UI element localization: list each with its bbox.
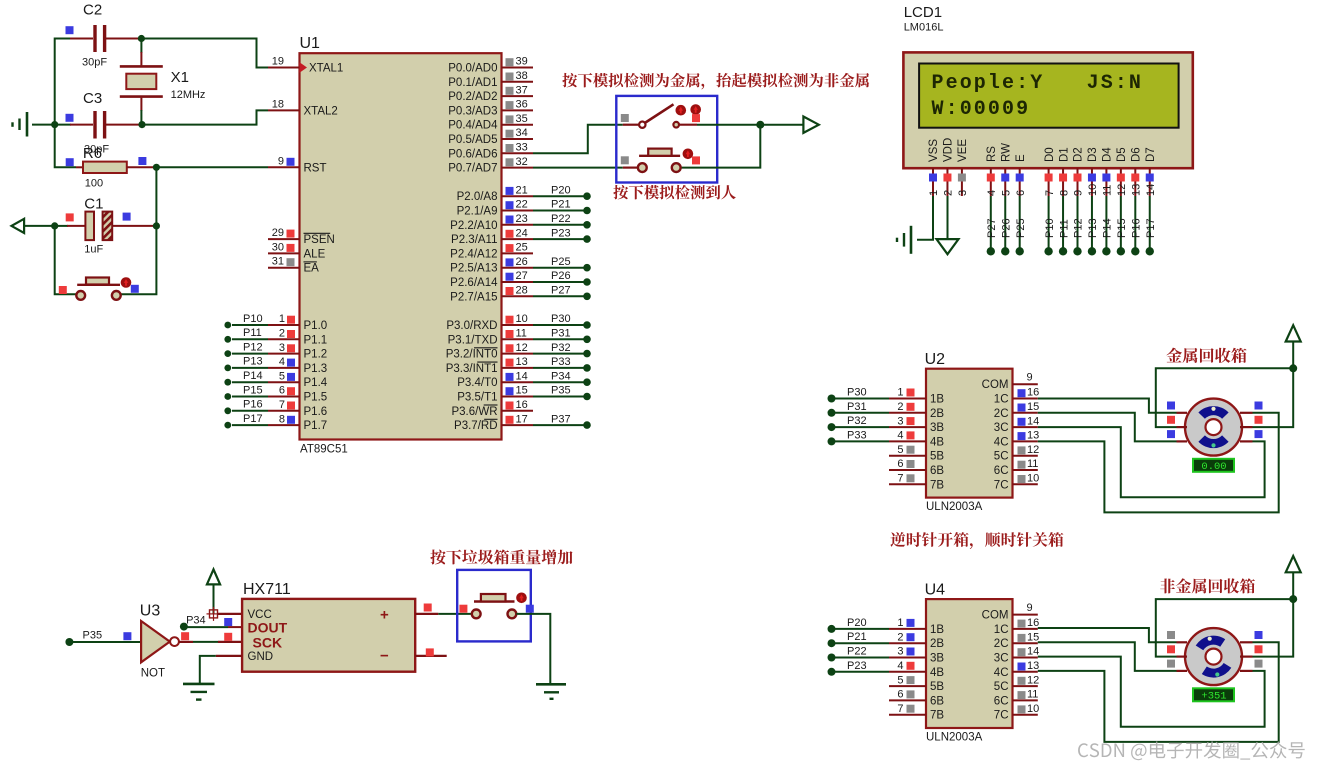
pin 38 P0.1/AD1 bbox=[448, 70, 533, 89]
motor terminal bbox=[1240, 440, 1253, 442]
state square bbox=[621, 156, 629, 164]
motor terminal bbox=[1240, 426, 1253, 428]
pin 30 ALE bbox=[268, 241, 326, 260]
svg-text:4: 4 bbox=[986, 190, 998, 196]
state square bbox=[138, 157, 146, 165]
LCD net P14 bbox=[1102, 196, 1114, 256]
origin marker bbox=[207, 607, 221, 621]
pin 9 COM bbox=[982, 372, 1038, 392]
svg-text:37: 37 bbox=[516, 84, 528, 96]
state square bbox=[66, 114, 74, 122]
svg-text:P0.5/AD5: P0.5/AD5 bbox=[448, 134, 497, 146]
LCD net P26 bbox=[1000, 196, 1012, 256]
svg-text:6: 6 bbox=[279, 385, 285, 397]
svg-text:12MHz: 12MHz bbox=[171, 89, 206, 101]
svg-text:10: 10 bbox=[1027, 473, 1039, 485]
svg-text:32: 32 bbox=[516, 156, 528, 168]
LCD pin 1 VSS bbox=[928, 139, 940, 196]
wire bbox=[121, 226, 157, 294]
svg-text:D7: D7 bbox=[1145, 147, 1157, 162]
state square bbox=[1255, 416, 1263, 424]
svg-text:P14: P14 bbox=[243, 370, 263, 382]
svg-text:1C: 1C bbox=[994, 394, 1009, 406]
svg-text:2B: 2B bbox=[930, 408, 944, 420]
pin 10 7C bbox=[994, 703, 1039, 722]
svg-text:P20: P20 bbox=[551, 184, 571, 196]
svg-text:30pF: 30pF bbox=[82, 57, 107, 69]
ground bbox=[13, 112, 55, 137]
wire VSS to ground bbox=[917, 196, 933, 240]
pin 5 5B bbox=[889, 444, 944, 463]
state square bbox=[621, 114, 629, 122]
svg-text:P21: P21 bbox=[551, 199, 571, 211]
power terminal bbox=[1286, 325, 1301, 341]
svg-text:1B: 1B bbox=[930, 394, 944, 406]
wire bbox=[55, 39, 76, 168]
pin 14 3C bbox=[994, 415, 1039, 434]
state square bbox=[123, 213, 131, 221]
LCD net P16 bbox=[1131, 196, 1143, 256]
svg-text:People:Y JS:N: People:Y JS:N bbox=[932, 72, 1144, 95]
pin 13 4C bbox=[994, 430, 1039, 449]
pin 2 2B / net P21 bbox=[828, 631, 945, 650]
svg-text:3: 3 bbox=[279, 342, 285, 354]
ground bbox=[536, 684, 566, 699]
button person bbox=[623, 149, 681, 172]
svg-text:P13: P13 bbox=[243, 356, 263, 368]
svg-text:11: 11 bbox=[516, 328, 527, 340]
svg-text:5C: 5C bbox=[994, 681, 1009, 693]
svg-text:P11: P11 bbox=[243, 327, 262, 339]
svg-text:P20: P20 bbox=[847, 617, 867, 629]
state square bbox=[123, 632, 131, 640]
LCD pin 9 D2 bbox=[1073, 147, 1085, 196]
NOT gate U3 bbox=[141, 621, 179, 662]
svg-text:27: 27 bbox=[516, 270, 528, 282]
pin 4 4B / net P23 bbox=[828, 660, 945, 679]
watermark bbox=[1078, 741, 1305, 760]
svg-text:5: 5 bbox=[897, 444, 903, 456]
motor terminal bbox=[1240, 655, 1253, 657]
svg-text:3: 3 bbox=[957, 190, 969, 196]
svg-text:17: 17 bbox=[516, 413, 528, 425]
wire bbox=[142, 110, 268, 124]
pin 32 P0.7/AD7 bbox=[448, 156, 533, 175]
svg-text:4: 4 bbox=[897, 660, 903, 672]
svg-text:COM: COM bbox=[982, 610, 1009, 622]
svg-text:7B: 7B bbox=[930, 710, 944, 722]
svg-text:3: 3 bbox=[897, 646, 903, 658]
svg-text:5B: 5B bbox=[930, 681, 944, 693]
svg-text:5C: 5C bbox=[994, 451, 1009, 463]
pin 9 COM bbox=[982, 602, 1038, 622]
svg-text:13: 13 bbox=[516, 356, 528, 368]
svg-text:1C: 1C bbox=[994, 624, 1009, 636]
svg-text:DOUT: DOUT bbox=[248, 620, 288, 636]
svg-text:P17: P17 bbox=[243, 413, 263, 425]
svg-text:6C: 6C bbox=[994, 465, 1009, 477]
annotation text bbox=[562, 73, 869, 90]
svg-text:P1.1: P1.1 bbox=[304, 334, 328, 346]
wire VCC bbox=[217, 613, 242, 615]
svg-text:31: 31 bbox=[272, 256, 284, 268]
svg-text:LCD1: LCD1 bbox=[904, 4, 942, 21]
state square bbox=[1255, 402, 1263, 410]
svg-text:P2.6/A14: P2.6/A14 bbox=[450, 277, 498, 289]
power VDD down bbox=[937, 196, 959, 254]
wire 3C bbox=[1038, 657, 1265, 727]
svg-text:VDD: VDD bbox=[943, 138, 955, 162]
svg-text:P17: P17 bbox=[1145, 218, 1157, 238]
svg-text:P34: P34 bbox=[551, 370, 571, 382]
svg-text:P25: P25 bbox=[1015, 218, 1027, 238]
state square bbox=[692, 114, 700, 122]
junction bbox=[756, 121, 764, 129]
svg-text:9: 9 bbox=[1027, 372, 1033, 384]
svg-text:4: 4 bbox=[279, 356, 285, 368]
svg-text:P0.6/AD6: P0.6/AD6 bbox=[448, 148, 497, 160]
pin 10 7C bbox=[994, 473, 1039, 492]
svg-text:U3: U3 bbox=[140, 603, 161, 620]
svg-text:P0.7/AD7: P0.7/AD7 bbox=[448, 163, 497, 175]
pin 6 6B bbox=[889, 689, 944, 708]
LCD pin 14 D7 bbox=[1145, 147, 1157, 196]
pin 19 XTAL1 bbox=[268, 56, 343, 75]
pin 23 P2.2/A10 bbox=[450, 213, 591, 232]
pin 25 P2.4/A12 bbox=[450, 242, 533, 261]
svg-text:P1.2: P1.2 bbox=[304, 349, 328, 361]
svg-text:11: 11 bbox=[1027, 689, 1038, 701]
svg-text:R6: R6 bbox=[83, 145, 102, 162]
wire bbox=[155, 167, 157, 226]
pin 16 P3.6/WR bbox=[451, 399, 533, 418]
svg-text:P34: P34 bbox=[186, 615, 206, 627]
svg-text:C2: C2 bbox=[83, 2, 102, 19]
capacitor C1 bbox=[55, 212, 157, 241]
svg-text:P3.1/TXD: P3.1/TXD bbox=[448, 334, 498, 346]
svg-text:2C: 2C bbox=[994, 638, 1009, 650]
svg-text:P0.1/AD1: P0.1/AD1 bbox=[448, 77, 497, 89]
svg-text:13: 13 bbox=[1131, 184, 1143, 196]
svg-text:P30: P30 bbox=[847, 387, 867, 399]
svg-text:P10: P10 bbox=[243, 313, 263, 325]
svg-text:2: 2 bbox=[279, 328, 285, 340]
LCD net P11 bbox=[1058, 196, 1070, 256]
state square bbox=[1167, 631, 1175, 639]
chip U1 AT89C51 bbox=[300, 53, 502, 439]
svg-text:P35: P35 bbox=[83, 630, 103, 642]
svg-text:1: 1 bbox=[279, 313, 285, 325]
LCD net P10 bbox=[1044, 196, 1056, 256]
motor terminal bbox=[1177, 412, 1188, 414]
svg-text:ALE: ALE bbox=[304, 248, 326, 260]
pin 12 5C bbox=[994, 674, 1039, 693]
wire common loop bbox=[1156, 342, 1293, 428]
svg-text:1: 1 bbox=[928, 190, 940, 196]
svg-text:EA: EA bbox=[304, 263, 320, 275]
state square bbox=[1167, 430, 1175, 438]
button weight bbox=[472, 594, 516, 618]
svg-text:14: 14 bbox=[516, 370, 528, 382]
svg-text:7C: 7C bbox=[994, 479, 1009, 491]
LCD net P12 bbox=[1073, 196, 1085, 256]
svg-text:P1.3: P1.3 bbox=[304, 363, 328, 375]
svg-text:15: 15 bbox=[1027, 401, 1039, 413]
svg-text:SCK: SCK bbox=[253, 635, 283, 651]
actuator icon bbox=[676, 105, 687, 116]
pin 7 7B bbox=[889, 473, 944, 492]
svg-text:C3: C3 bbox=[83, 90, 102, 107]
LCD pin 3 VEE bbox=[957, 139, 969, 196]
wire bbox=[697, 124, 803, 126]
rotor mark bbox=[1215, 672, 1219, 676]
svg-text:P0.0/AD0: P0.0/AD0 bbox=[448, 63, 497, 75]
svg-text:38: 38 bbox=[516, 70, 528, 82]
motor terminal bbox=[1240, 670, 1253, 672]
svg-text:P26: P26 bbox=[1000, 218, 1012, 238]
LCD pin 13 D6 bbox=[1131, 147, 1143, 196]
svg-text:NOT: NOT bbox=[141, 668, 165, 680]
rotor mark bbox=[1211, 407, 1215, 411]
pin 35 P0.4/AD4 bbox=[448, 113, 533, 132]
svg-text:P0.2/AD2: P0.2/AD2 bbox=[448, 91, 497, 103]
motor terminal bbox=[1177, 655, 1188, 657]
svg-text:P10: P10 bbox=[1044, 218, 1056, 238]
power terminal bbox=[1286, 556, 1301, 572]
power terminal bbox=[207, 569, 220, 614]
pin 17 P3.7/RD bbox=[454, 413, 591, 432]
LCD LM016L body bbox=[903, 52, 1192, 168]
state square bbox=[526, 605, 534, 613]
svg-text:7: 7 bbox=[897, 473, 903, 485]
wire 4C bbox=[1038, 642, 1279, 742]
wire plus out bbox=[415, 613, 472, 615]
svg-text:P23: P23 bbox=[551, 227, 571, 239]
svg-text:36: 36 bbox=[516, 99, 528, 111]
svg-text:P27: P27 bbox=[986, 218, 998, 238]
pin 39 P0.0/AD0 bbox=[448, 56, 533, 75]
pin 26 P2.5/A13 bbox=[450, 256, 591, 275]
wire common right bbox=[1253, 368, 1294, 427]
LCD net P27 bbox=[986, 196, 998, 256]
stepper motor body bbox=[1185, 628, 1242, 685]
annotation text bbox=[613, 185, 735, 200]
capacitor C3 bbox=[55, 111, 142, 139]
svg-text:ULN2003A: ULN2003A bbox=[926, 501, 983, 513]
capacitor C2 bbox=[70, 25, 141, 52]
svg-text:6B: 6B bbox=[930, 695, 944, 707]
svg-text:+351: +351 bbox=[1201, 691, 1226, 703]
svg-text:D6: D6 bbox=[1131, 147, 1143, 162]
svg-text:P37: P37 bbox=[551, 413, 571, 425]
svg-text:25: 25 bbox=[516, 242, 528, 254]
net P34 bbox=[180, 615, 242, 631]
motor terminal bbox=[1177, 670, 1188, 672]
LCD net P15 bbox=[1116, 196, 1128, 256]
LCD net P13 bbox=[1087, 196, 1099, 256]
state square bbox=[131, 285, 139, 293]
svg-text:1uF: 1uF bbox=[84, 244, 103, 256]
state square bbox=[224, 633, 232, 641]
annotation text bbox=[890, 532, 1063, 549]
svg-text:P1.0: P1.0 bbox=[304, 320, 328, 332]
svg-text:9: 9 bbox=[278, 155, 284, 167]
junction bbox=[153, 164, 160, 171]
svg-text:PSEN: PSEN bbox=[304, 234, 335, 246]
svg-text:P3.7/RD: P3.7/RD bbox=[454, 420, 497, 432]
pin 4 4B / net P33 bbox=[828, 429, 945, 448]
svg-text:RST: RST bbox=[304, 162, 327, 174]
svg-text:P1.5: P1.5 bbox=[304, 392, 328, 404]
junction bbox=[153, 222, 160, 229]
svg-text:4: 4 bbox=[897, 430, 903, 442]
terminal arrow bbox=[12, 219, 55, 233]
svg-text:18: 18 bbox=[272, 98, 284, 110]
actuator icon bbox=[121, 277, 132, 288]
state square bbox=[424, 604, 432, 612]
actuator icon bbox=[683, 149, 694, 160]
svg-text:5: 5 bbox=[1000, 190, 1012, 196]
svg-text:14: 14 bbox=[1145, 184, 1157, 196]
svg-text:P3.6/WR: P3.6/WR bbox=[451, 406, 497, 418]
svg-text:16: 16 bbox=[516, 399, 528, 411]
stepper motor body bbox=[1185, 399, 1242, 456]
pin 31 EA bbox=[268, 256, 319, 275]
wire 1C bbox=[1038, 399, 1177, 413]
state square bbox=[59, 286, 67, 294]
svg-text:P16: P16 bbox=[1131, 218, 1143, 238]
state square bbox=[1255, 660, 1263, 668]
svg-text:U4: U4 bbox=[925, 581, 946, 598]
junction bbox=[51, 121, 58, 128]
state square bbox=[66, 26, 74, 34]
svg-text:3B: 3B bbox=[930, 422, 944, 434]
svg-text:+: + bbox=[380, 607, 389, 624]
svg-text:P22: P22 bbox=[551, 213, 571, 225]
pin 37 P0.2/AD2 bbox=[448, 84, 533, 103]
pin 3 3B / net P22 bbox=[828, 646, 945, 665]
svg-text:P12: P12 bbox=[243, 341, 263, 353]
LCD pin 7 D0 bbox=[1044, 147, 1056, 196]
pin 13 P3.3/INT1 bbox=[446, 356, 591, 375]
resistor R6 bbox=[76, 162, 156, 173]
state square bbox=[1255, 430, 1263, 438]
wire common loop bbox=[1156, 572, 1293, 656]
svg-text:7C: 7C bbox=[994, 710, 1009, 722]
svg-text:P26: P26 bbox=[551, 270, 571, 282]
pin 2 2B / net P31 bbox=[828, 401, 945, 420]
state square bbox=[1167, 660, 1175, 668]
LCD net P25 bbox=[1015, 196, 1027, 256]
svg-text:P2.0/A8: P2.0/A8 bbox=[457, 191, 498, 203]
state square bbox=[692, 156, 700, 164]
svg-text:P3.2/INT0: P3.2/INT0 bbox=[446, 349, 498, 361]
svg-text:D1: D1 bbox=[1058, 147, 1070, 162]
svg-text:XTAL2: XTAL2 bbox=[304, 105, 338, 117]
pin 18 XTAL2 bbox=[268, 98, 338, 117]
pin 7 P1.6 / net P16 bbox=[224, 399, 327, 418]
pin 5 5B bbox=[889, 674, 944, 693]
svg-text:6: 6 bbox=[897, 689, 903, 701]
wire 1C bbox=[1038, 628, 1177, 642]
svg-text:P27: P27 bbox=[551, 285, 571, 297]
pin 27 P2.6/A14 bbox=[450, 270, 591, 289]
rotor mark bbox=[1208, 637, 1212, 641]
pin 22 P2.1/A9 bbox=[457, 199, 591, 218]
chip HX711 bbox=[242, 599, 415, 672]
motor terminal bbox=[1240, 412, 1253, 414]
svg-text:8: 8 bbox=[279, 413, 285, 425]
svg-text:P14: P14 bbox=[1102, 218, 1114, 238]
svg-text:P0.3/AD3: P0.3/AD3 bbox=[448, 105, 497, 117]
svg-text:P13: P13 bbox=[1087, 218, 1099, 238]
pin 8 P1.7 / net P17 bbox=[224, 413, 327, 432]
svg-text:3: 3 bbox=[897, 415, 903, 427]
rotor shaft bbox=[1206, 419, 1222, 435]
svg-text:22: 22 bbox=[516, 199, 528, 211]
svg-text:7: 7 bbox=[279, 399, 285, 411]
rotor pole bbox=[1196, 636, 1226, 651]
svg-text:P31: P31 bbox=[847, 401, 867, 413]
display bbox=[1193, 688, 1234, 702]
button RST bbox=[76, 278, 120, 300]
svg-text:13: 13 bbox=[1027, 660, 1039, 672]
svg-text:P1.4: P1.4 bbox=[304, 377, 328, 389]
svg-text:P2.2/A10: P2.2/A10 bbox=[450, 220, 497, 232]
svg-text:10: 10 bbox=[516, 313, 528, 325]
pin 3 3B / net P32 bbox=[828, 415, 945, 434]
junction bbox=[138, 121, 145, 128]
svg-text:P1.7: P1.7 bbox=[304, 420, 328, 432]
switch SW-SPST bbox=[623, 104, 697, 128]
pin 10 P3.0/RXD bbox=[446, 313, 590, 332]
pin 21 P2.0/A8 bbox=[457, 184, 591, 203]
svg-text:3C: 3C bbox=[994, 653, 1009, 665]
chip U4 ULN2003A bbox=[926, 599, 1013, 728]
svg-text:E: E bbox=[1015, 154, 1027, 162]
svg-text:11: 11 bbox=[1102, 185, 1114, 196]
pin 9 RST bbox=[268, 155, 327, 174]
svg-text:P11: P11 bbox=[1058, 219, 1070, 238]
svg-text:GND: GND bbox=[248, 651, 274, 663]
svg-text:23: 23 bbox=[516, 213, 528, 225]
display bbox=[1193, 459, 1234, 473]
svg-text:1: 1 bbox=[897, 387, 903, 399]
annotation text bbox=[1166, 348, 1246, 363]
wire 2C bbox=[1038, 413, 1177, 442]
wire bbox=[55, 226, 77, 294]
svg-text:P2.3/A11: P2.3/A11 bbox=[451, 234, 497, 246]
pin 7 7B bbox=[889, 703, 944, 722]
actuator icon bbox=[516, 593, 527, 604]
svg-text:26: 26 bbox=[516, 256, 528, 268]
state square bbox=[1167, 402, 1175, 410]
net P35 bbox=[65, 630, 141, 647]
pin 15 P3.5/T1 bbox=[457, 385, 591, 404]
LCD pin 10 D3 bbox=[1087, 147, 1099, 196]
svg-text:6: 6 bbox=[1015, 190, 1027, 196]
svg-text:P32: P32 bbox=[847, 415, 867, 427]
rotor pole bbox=[1198, 406, 1228, 419]
svg-text:ULN2003A: ULN2003A bbox=[926, 732, 983, 744]
pin 3 P1.2 / net P12 bbox=[224, 341, 327, 360]
svg-text:P3.4/T0: P3.4/T0 bbox=[457, 377, 497, 389]
svg-text:P25: P25 bbox=[551, 256, 571, 268]
svg-text:XTAL1: XTAL1 bbox=[309, 63, 343, 75]
svg-text:P22: P22 bbox=[847, 646, 867, 658]
svg-text:LM016L: LM016L bbox=[904, 22, 944, 34]
svg-text:P35: P35 bbox=[551, 385, 571, 397]
